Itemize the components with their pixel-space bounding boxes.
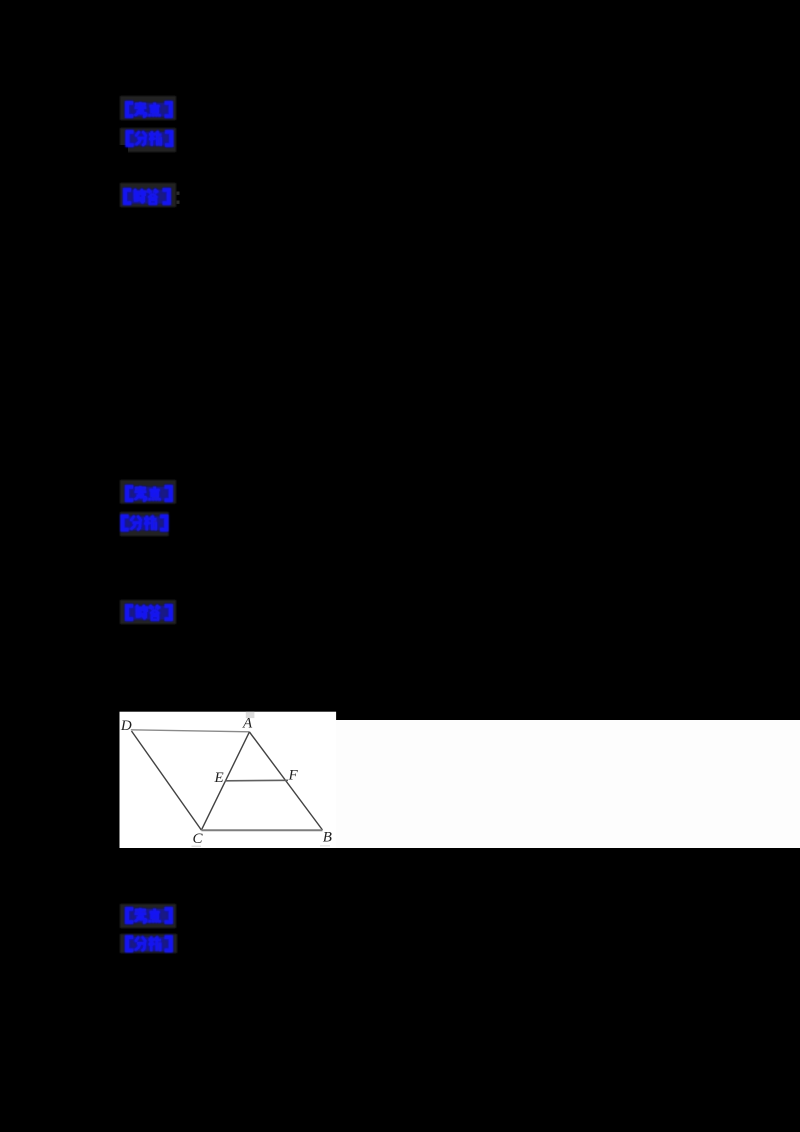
svg-text:D: D — [120, 718, 132, 734]
svg-text:A: A — [242, 716, 253, 732]
svg-text:F: F — [288, 768, 299, 784]
svg-text:E: E — [214, 770, 224, 786]
svg-text:C: C — [193, 831, 204, 847]
svg-text:B: B — [323, 830, 332, 846]
